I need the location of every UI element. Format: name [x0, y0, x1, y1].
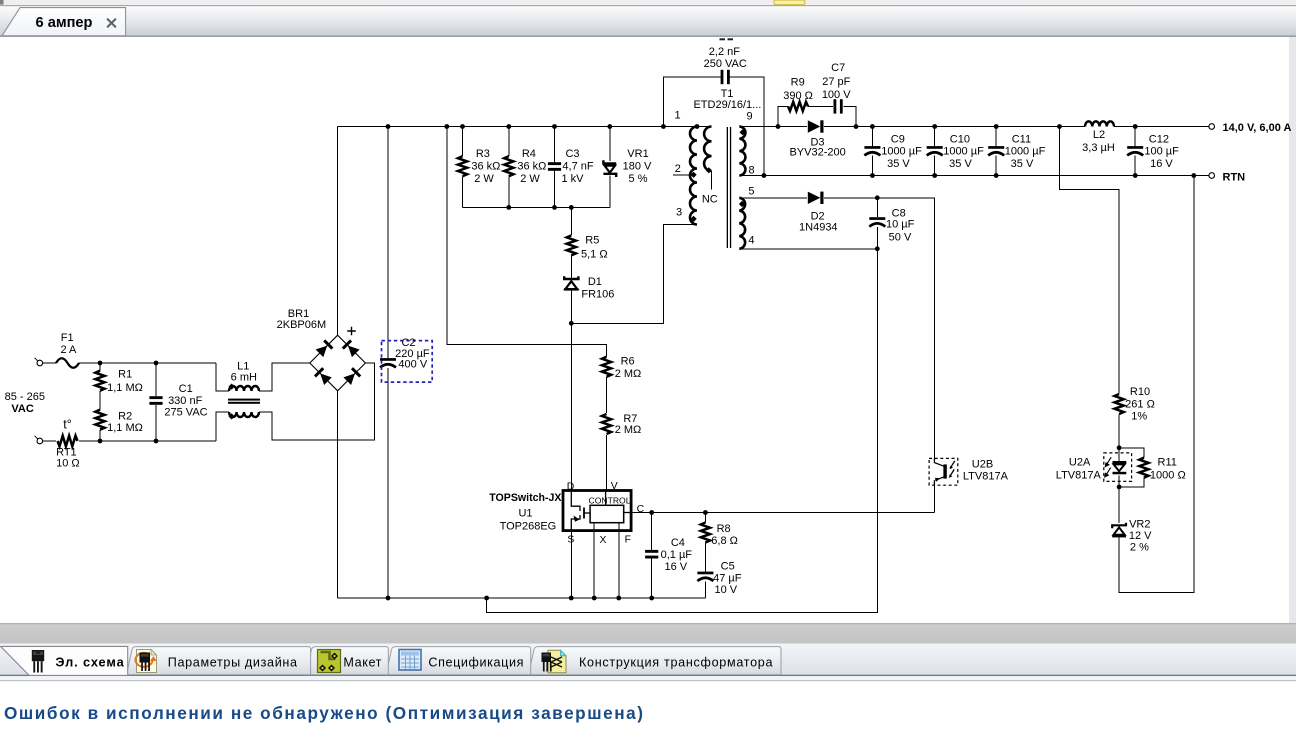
wire: C12 branch — [1134, 127, 1136, 176]
wire: C9 branch — [871, 127, 873, 176]
U2A light arrows — [1105, 457, 1111, 477]
diode D2 — [808, 192, 824, 204]
wire: bias pin4 rail — [739, 248, 877, 250]
svg-text:Спецификация: Спецификация — [428, 655, 524, 669]
svg-text:L2: L2 — [1093, 129, 1105, 141]
U1 TOPSwitch box — [563, 491, 631, 531]
junction dots clamp rail — [506, 205, 573, 326]
svg-text:1000 µF: 1000 µF — [943, 146, 984, 158]
svg-text:250 VAC: 250 VAC — [704, 58, 747, 70]
wire: C8 branch — [876, 198, 878, 249]
junction dots return rail — [762, 173, 1197, 178]
zener VR2 — [1112, 523, 1126, 538]
svg-text:C5: C5 — [721, 561, 735, 573]
wire: RC snubber loop — [778, 106, 856, 126]
strip bottom lines — [0, 675, 1296, 676]
tab Конструкция трансформатора — [529, 647, 782, 675]
wire: transformer pin 2 stub — [673, 174, 694, 176]
svg-text:2 МΩ: 2 МΩ — [615, 368, 642, 380]
wire: R1R2 branch verticals — [99, 363, 101, 441]
tab5 icon (transformer doc) — [542, 650, 567, 673]
svg-text:R11: R11 — [1158, 457, 1177, 469]
svg-text:4: 4 — [748, 235, 754, 247]
wire: output return rail pin8 — [739, 175, 1208, 177]
U1 CONTROL inner box — [590, 505, 624, 522]
optocoupler U2A dashed box — [1104, 453, 1132, 482]
svg-text:2 A: 2 A — [60, 344, 77, 356]
polarity dot pin9 — [740, 129, 746, 135]
svg-text:5 %: 5 % — [629, 173, 648, 185]
bridge diode bottom-right — [343, 367, 361, 385]
bridge plus sign — [347, 327, 356, 336]
svg-text:3: 3 — [676, 207, 682, 219]
capacitor C1 — [149, 396, 162, 405]
svg-text:VAC: VAC — [11, 403, 33, 415]
resistor R2 — [95, 410, 104, 430]
top document tab bar — [0, 6, 1296, 36]
svg-text:10 Ω: 10 Ω — [56, 458, 80, 470]
wire: bias return line — [487, 249, 878, 613]
polarity dot pin5 — [739, 201, 745, 207]
wire: CONTROL pin rail to U2B — [631, 485, 934, 512]
resistor R8 — [701, 523, 710, 543]
svg-text:35 V: 35 V — [1011, 158, 1034, 170]
wire: clamp bottom rail — [463, 206, 610, 208]
terminal output + — [1209, 124, 1215, 130]
wire: voltage sense down to divider — [1060, 127, 1194, 593]
svg-text:R8: R8 — [717, 523, 731, 535]
svg-text:CONTROL: CONTROL — [588, 496, 630, 506]
svg-text:1000 µF: 1000 µF — [1005, 146, 1046, 158]
svg-text:10 µF: 10 µF — [886, 219, 915, 231]
svg-text:85 - 265: 85 - 265 — [5, 391, 45, 403]
wire: C10 branch — [934, 127, 936, 176]
svg-text:1N4934: 1N4934 — [799, 222, 838, 234]
wire: NC stub — [711, 171, 713, 190]
diode D3 — [808, 120, 824, 132]
svg-text:261 Ω: 261 Ω — [1125, 399, 1155, 411]
svg-text:6 ампер: 6 ампер — [36, 15, 93, 31]
polarity dot pin2 — [691, 172, 697, 178]
svg-text:6,8 Ω: 6,8 Ω — [711, 535, 738, 547]
polarity dot pin3 — [691, 216, 697, 222]
svg-text:180 V: 180 V — [623, 161, 652, 173]
wire: C11 branch — [995, 127, 997, 176]
svg-text:TOP268EG: TOP268EG — [500, 521, 557, 533]
wire: R11 parallel branch — [1119, 448, 1144, 487]
svg-text:Конструкция трансформатора: Конструкция трансформатора — [579, 655, 773, 669]
svg-text:C7: C7 — [831, 62, 845, 74]
svg-text:100 µF: 100 µF — [1144, 146, 1179, 158]
svg-text:1 kV: 1 kV — [561, 173, 584, 185]
svg-text:1,1 МΩ: 1,1 МΩ — [107, 422, 143, 434]
wire: line-sense to V pin — [447, 127, 607, 492]
svg-text:1000 Ω: 1000 Ω — [1150, 469, 1186, 481]
svg-text:ETD29/16/1...: ETD29/16/1... — [693, 99, 761, 111]
svg-text:2,2 nF: 2,2 nF — [709, 46, 740, 58]
svg-text:U2B: U2B — [972, 459, 993, 471]
svg-text:D: D — [567, 481, 575, 492]
optocoupler U2B phototransistor — [934, 458, 954, 485]
capacitor C6 Y-cap — [721, 70, 730, 84]
svg-text:D1: D1 — [588, 276, 602, 288]
optocoupler U2B dashed box — [929, 458, 958, 485]
wire: C1 branch — [155, 363, 157, 441]
junction dots bias rails — [875, 195, 880, 251]
svg-text:Эл. схема: Эл. схема — [55, 655, 124, 670]
svg-text:C1: C1 — [179, 383, 193, 395]
svg-text:36 kΩ: 36 kΩ — [517, 161, 546, 173]
resistor R11 — [1139, 458, 1148, 478]
wire: bias pin5 rail to U2B collector — [739, 198, 934, 459]
wire: bridge - down to source rail — [337, 391, 339, 598]
svg-text:27 pF: 27 pF — [822, 76, 850, 88]
toolbar sliver top — [0, 0, 1296, 5]
svg-text:R6: R6 — [621, 356, 635, 368]
capacitor C4 — [645, 550, 658, 559]
svg-text:V: V — [611, 481, 618, 492]
tab3 icon (green pcb) — [318, 650, 341, 673]
svg-text:Макет: Макет — [343, 655, 382, 669]
svg-text:5,1 Ω: 5,1 Ω — [581, 249, 608, 261]
junction dots source rail — [386, 596, 654, 601]
svg-text:NC: NC — [702, 194, 718, 206]
transformer T1 primary winding 2 (NC) — [704, 127, 711, 171]
diode D1 — [564, 276, 578, 290]
svg-text:4,7 nF: 4,7 nF — [562, 161, 593, 173]
resistor R3 — [458, 156, 467, 176]
U1 MOSFET glyph — [571, 491, 631, 531]
transformer T1 core — [727, 127, 728, 248]
bottom tab strip background — [0, 644, 1296, 676]
svg-text:VR2: VR2 — [1129, 519, 1150, 531]
wire: R5-D1 branch to drain node — [570, 207, 572, 491]
junction dots control rail — [649, 510, 708, 515]
junction dots top rail — [386, 124, 700, 129]
svg-text:330 nF: 330 nF — [168, 395, 203, 407]
svg-text:2 W: 2 W — [474, 173, 494, 185]
gray band — [0, 623, 1296, 644]
transformer T1 secondary winding — [739, 127, 745, 176]
optocoupler U2A LED — [1113, 461, 1127, 474]
resistor R7 — [602, 414, 611, 434]
junction dots output rail — [776, 124, 1138, 129]
wire: clamp VR1 branch — [609, 127, 611, 208]
choke L1 core — [228, 399, 260, 401]
wire: drain node to transformer pin 3 — [571, 224, 697, 323]
junction dots feedback divider — [1117, 445, 1122, 489]
zener VR1 — [603, 160, 616, 177]
document tab "6 ампер" — [2, 8, 126, 36]
wire: R8 C5 branch — [704, 513, 706, 599]
svg-text:390 Ω: 390 Ω — [783, 90, 813, 102]
svg-text:2 МΩ: 2 МΩ — [615, 424, 642, 436]
svg-text:R2: R2 — [118, 411, 132, 423]
svg-text:35 V: 35 V — [887, 158, 910, 170]
svg-text:16 V: 16 V — [1150, 158, 1173, 170]
wire: C2 branch — [387, 127, 389, 599]
svg-text:C9: C9 — [891, 134, 905, 146]
wire: clamp R4 branch — [508, 127, 510, 208]
C2 selection box (blue dashed) — [382, 341, 433, 383]
svg-text:R5: R5 — [585, 235, 599, 247]
resistor R5 — [567, 235, 576, 255]
terminal AC bottom — [37, 438, 43, 444]
terminal AC top — [37, 360, 43, 366]
choke L1 windings — [229, 386, 259, 391]
capacitor C5 (polarized) — [697, 572, 713, 581]
svg-text:FR106: FR106 — [581, 289, 614, 301]
svg-text:0,1 µF: 0,1 µF — [661, 549, 693, 561]
wire: C4 branch — [651, 513, 653, 599]
svg-text:t°: t° — [63, 418, 71, 432]
svg-text:5: 5 — [748, 186, 754, 198]
capacitor C2 (polarized) — [380, 358, 396, 367]
svg-text:50 V: 50 V — [889, 231, 912, 243]
capacitor C12 (polarized) — [1127, 146, 1143, 155]
svg-text:400 V: 400 V — [398, 358, 427, 370]
capacitor C10 (polarized) — [927, 146, 943, 155]
capacitor C7 — [834, 99, 843, 113]
svg-text:S: S — [567, 535, 574, 546]
svg-text:F: F — [625, 535, 631, 546]
U1 pin letters — [567, 481, 645, 546]
wire: AC input top line — [43, 362, 56, 364]
svg-text:9: 9 — [746, 111, 752, 123]
thermistor RT1 — [58, 436, 78, 447]
svg-text:12 V: 12 V — [1129, 530, 1152, 542]
svg-text:100 V: 100 V — [822, 89, 851, 101]
svg-text:BYV32-200: BYV32-200 — [789, 147, 845, 159]
wire: U1 S X F pins to source rail — [571, 523, 619, 598]
svg-text:R1: R1 — [118, 369, 132, 381]
bridge BR1 outline — [310, 335, 366, 391]
tab Спецификация — [386, 647, 531, 675]
C6 clipped label marks — [720, 38, 726, 40]
svg-text:47 µF: 47 µF — [713, 572, 742, 584]
resistor R10 — [1115, 394, 1124, 414]
svg-text:C11: C11 — [1012, 134, 1031, 146]
wire: Y-cap C6 loop pin1 to pin8 — [663, 77, 764, 176]
wire: L1 left links — [216, 363, 229, 441]
svg-text:1,1 МΩ: 1,1 МΩ — [107, 382, 143, 394]
bridge diode bottom-left — [314, 367, 332, 385]
resistor R1 — [95, 371, 104, 391]
resistor R4 — [504, 156, 513, 176]
schematic right gray strip — [1289, 37, 1296, 623]
svg-text:C12: C12 — [1149, 134, 1169, 146]
svg-text:275 VAC: 275 VAC — [164, 407, 207, 419]
tab1 icon (transistor) — [32, 650, 44, 673]
svg-text:U2A: U2A — [1069, 457, 1091, 469]
svg-text:U1: U1 — [518, 508, 532, 520]
svg-text:3,3 µH: 3,3 µH — [1082, 142, 1115, 154]
tab close X — [108, 19, 116, 27]
svg-text:1000 µF: 1000 µF — [881, 146, 922, 158]
capacitor C9 (polarized) — [864, 146, 880, 155]
svg-text:14,0 V, 6,00 A: 14,0 V, 6,00 A — [1223, 122, 1292, 134]
wire: L1 right links to bridge — [259, 363, 374, 440]
tab Параметры дизайна — [127, 647, 311, 675]
svg-text:R3: R3 — [476, 148, 490, 160]
svg-text:C4: C4 — [671, 537, 685, 549]
fuse F1 — [56, 358, 79, 368]
svg-text:X: X — [600, 535, 607, 546]
svg-text:Параметры дизайна: Параметры дизайна — [168, 655, 298, 669]
capacitor C11 (polarized) — [988, 146, 1004, 155]
svg-text:16 V: 16 V — [664, 561, 687, 573]
svg-text:C3: C3 — [565, 148, 579, 160]
svg-text:RTN: RTN — [1223, 171, 1246, 183]
wire: clamp C3 branch — [554, 127, 556, 208]
svg-text:1%: 1% — [1131, 411, 1147, 423]
svg-text:LTV817A: LTV817A — [963, 471, 1009, 483]
choke L1 polarity dots — [229, 384, 235, 390]
tab4 icon (spreadsheet) — [399, 650, 421, 671]
yellow toolbar button sliver — [774, 0, 805, 5]
transformer T1 bias winding — [739, 198, 745, 249]
resistor R6 — [602, 357, 611, 377]
svg-text:R4: R4 — [522, 148, 536, 160]
svg-text:2 W: 2 W — [520, 173, 540, 185]
svg-text:R9: R9 — [791, 77, 805, 89]
svg-text:1: 1 — [674, 110, 680, 122]
svg-text:F1: F1 — [61, 332, 74, 344]
svg-text:8: 8 — [748, 164, 754, 176]
svg-text:10 V: 10 V — [714, 584, 737, 596]
polarity dot NC winding — [706, 167, 712, 173]
svg-text:C: C — [637, 504, 645, 515]
tab2 icon (design doc) — [136, 650, 157, 673]
svg-text:35 V: 35 V — [949, 158, 972, 170]
svg-text:2KBP06M: 2KBP06M — [277, 319, 327, 331]
svg-text:C10: C10 — [950, 134, 970, 146]
wire: HV+ top rail — [338, 126, 712, 128]
resistor R9 — [788, 102, 808, 111]
bridge diode top-left — [315, 339, 333, 357]
inductor L2 — [1085, 121, 1114, 126]
tab Макет — [306, 647, 388, 675]
svg-text:R10: R10 — [1130, 386, 1150, 398]
wire: source bottom rail — [338, 597, 706, 599]
wire: pin9 output rail — [739, 126, 1208, 128]
svg-text:Ошибок в исполнении не обнаруж: Ошибок в исполнении не обнаружено (Оптим… — [4, 703, 645, 723]
svg-text:LTV817A: LTV817A — [1056, 469, 1102, 481]
capacitor C3 — [548, 162, 561, 171]
svg-text:2: 2 — [675, 163, 681, 175]
svg-text:2 %: 2 % — [1130, 541, 1149, 553]
wire: clamp R3 branch — [462, 127, 464, 208]
bridge diode top-right — [342, 339, 360, 357]
wire: AC input bottom line — [43, 440, 56, 442]
capacitor C8 (polarized) — [869, 217, 885, 226]
tab Эл. схема (active) — [1, 646, 128, 675]
svg-text:6 mH: 6 mH — [231, 371, 257, 383]
terminal RTN — [1209, 173, 1215, 179]
junction dots input section — [98, 361, 159, 444]
svg-text:TOPSwitch-JX: TOPSwitch-JX — [489, 492, 561, 504]
svg-text:VR1: VR1 — [627, 148, 648, 160]
transformer T1 primary winding 1 — [690, 127, 697, 225]
svg-text:36 kΩ: 36 kΩ — [471, 161, 500, 173]
wire: bridge + up to bus — [337, 127, 339, 336]
